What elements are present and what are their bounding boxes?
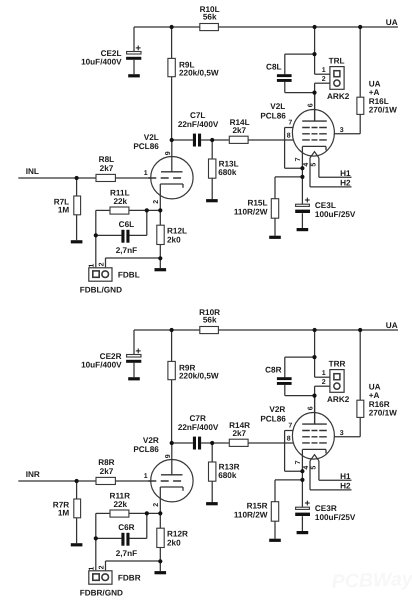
svg-text:270/1W: 270/1W — [369, 106, 397, 115]
svg-text:C7L: C7L — [190, 111, 205, 120]
svg-text:FDBR/GND: FDBR/GND — [80, 588, 123, 597]
svg-text:1: 1 — [88, 264, 95, 268]
svg-text:1M: 1M — [58, 206, 70, 215]
svg-text:R16R: R16R — [369, 400, 390, 409]
svg-text:ARK2: ARK2 — [327, 395, 350, 404]
svg-text:22k: 22k — [113, 197, 127, 206]
svg-text:680k: 680k — [218, 168, 237, 177]
svg-text:C8L: C8L — [266, 63, 281, 72]
svg-text:R12L: R12L — [167, 227, 187, 236]
svg-text:2: 2 — [153, 503, 160, 507]
svg-text:UA: UA — [386, 18, 398, 27]
svg-text:22nF/400V: 22nF/400V — [178, 120, 219, 129]
svg-text:10uF/400V: 10uF/400V — [81, 361, 122, 370]
svg-text:100uF/25V: 100uF/25V — [315, 210, 356, 219]
svg-text:H1: H1 — [340, 472, 351, 481]
svg-text:FDBL: FDBL — [118, 270, 140, 279]
svg-text:2k0: 2k0 — [167, 538, 181, 547]
svg-text:UA: UA — [369, 382, 381, 391]
svg-text:8: 8 — [287, 132, 291, 139]
svg-text:2: 2 — [322, 379, 326, 386]
svg-text:110R/2W: 110R/2W — [234, 510, 268, 519]
svg-text:R8L: R8L — [99, 155, 114, 164]
svg-text:R15R: R15R — [247, 501, 268, 510]
svg-text:R16L: R16L — [369, 97, 389, 106]
svg-text:3: 3 — [340, 127, 344, 134]
svg-text:7: 7 — [295, 460, 302, 464]
svg-text:H1: H1 — [340, 169, 351, 178]
svg-text:V2R: V2R — [269, 405, 285, 414]
svg-text:H2: H2 — [340, 179, 351, 188]
svg-text:2k7: 2k7 — [100, 467, 114, 476]
svg-text:7: 7 — [295, 157, 302, 161]
svg-text:V2R: V2R — [143, 436, 159, 445]
svg-text:2,7nF: 2,7nF — [116, 549, 137, 558]
svg-text:2: 2 — [99, 262, 106, 266]
svg-text:1: 1 — [144, 170, 148, 177]
svg-text:7: 7 — [288, 423, 292, 430]
svg-text:UA: UA — [369, 79, 381, 88]
svg-text:PCBWay: PCBWay — [331, 568, 412, 593]
svg-text:22nF/400V: 22nF/400V — [178, 423, 219, 432]
svg-text:110R/2W: 110R/2W — [234, 207, 268, 216]
svg-text:H2: H2 — [340, 482, 351, 491]
svg-text:R13R: R13R — [219, 462, 240, 471]
svg-text:5: 5 — [310, 466, 317, 470]
svg-text:R8R: R8R — [98, 458, 114, 467]
svg-text:100uF/25V: 100uF/25V — [315, 513, 356, 522]
svg-text:R13L: R13L — [219, 159, 239, 168]
svg-text:1M: 1M — [58, 509, 70, 518]
svg-text:6: 6 — [307, 406, 314, 410]
svg-text:220k/0,5W: 220k/0,5W — [179, 69, 219, 78]
svg-text:9: 9 — [165, 151, 172, 155]
svg-text:22k: 22k — [113, 500, 127, 509]
svg-text:1: 1 — [144, 473, 148, 480]
svg-text:PCL86: PCL86 — [260, 415, 286, 424]
svg-text:CE3L: CE3L — [315, 201, 336, 210]
svg-text:UA: UA — [386, 321, 398, 330]
svg-text:270/1W: 270/1W — [369, 409, 397, 418]
svg-text:220k/0,5W: 220k/0,5W — [179, 372, 219, 381]
svg-text:6: 6 — [307, 103, 314, 107]
svg-text:PCL86: PCL86 — [133, 445, 159, 454]
svg-text:C6L: C6L — [119, 220, 134, 229]
svg-text:8: 8 — [287, 435, 291, 442]
svg-text:FDBL/GND: FDBL/GND — [80, 285, 122, 294]
svg-text:2k7: 2k7 — [100, 164, 114, 173]
svg-text:ARK2: ARK2 — [327, 92, 350, 101]
svg-text:7: 7 — [288, 120, 292, 127]
svg-text:PCL86: PCL86 — [260, 112, 286, 121]
svg-text:2: 2 — [322, 76, 326, 83]
svg-text:TRL: TRL — [329, 57, 345, 66]
svg-text:10uF/400V: 10uF/400V — [81, 58, 122, 67]
svg-text:R15L: R15L — [247, 198, 267, 207]
svg-text:2: 2 — [99, 565, 106, 569]
svg-text:2k7: 2k7 — [232, 429, 246, 438]
svg-text:680k: 680k — [218, 471, 237, 480]
svg-text:TRR: TRR — [329, 360, 346, 369]
svg-text:1: 1 — [322, 370, 326, 377]
svg-text:2k0: 2k0 — [167, 235, 181, 244]
svg-text:C8R: C8R — [265, 366, 281, 375]
svg-text:2: 2 — [153, 200, 160, 204]
svg-text:C6R: C6R — [118, 523, 134, 532]
svg-text:4: 4 — [303, 163, 310, 167]
svg-text:56k: 56k — [203, 315, 217, 324]
svg-text:V2L: V2L — [144, 133, 159, 142]
svg-text:1: 1 — [322, 67, 326, 74]
svg-text:2k7: 2k7 — [232, 126, 246, 135]
svg-text:R12R: R12R — [167, 530, 188, 539]
svg-text:CE3R: CE3R — [315, 504, 337, 513]
svg-text:4: 4 — [303, 466, 310, 470]
svg-text:56k: 56k — [203, 12, 217, 21]
svg-text:INR: INR — [26, 470, 40, 479]
svg-text:V2L: V2L — [270, 102, 285, 111]
svg-text:3: 3 — [340, 430, 344, 437]
svg-text:PCL86: PCL86 — [133, 142, 159, 151]
svg-text:INL: INL — [26, 167, 39, 176]
svg-text:5: 5 — [310, 163, 317, 167]
svg-text:FDBR: FDBR — [118, 573, 141, 582]
svg-text:9: 9 — [165, 454, 172, 458]
svg-text:C7R: C7R — [190, 414, 206, 423]
svg-text:1: 1 — [88, 567, 95, 571]
svg-text:2,7nF: 2,7nF — [116, 246, 137, 255]
